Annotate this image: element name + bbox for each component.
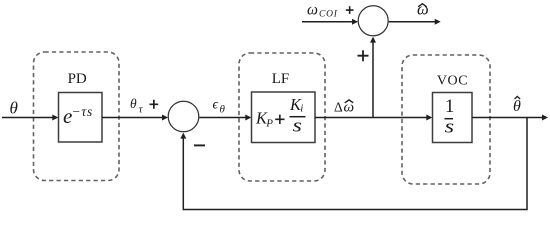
wire sum1 to LF [199, 117, 246, 119]
wire feedback down-left-up [183, 118, 527, 210]
svg-text:θ: θ [220, 104, 226, 116]
summing junction sum1 [168, 101, 199, 132]
arrowhead into PD block [52, 115, 58, 121]
arrowhead theta hat output [542, 115, 548, 121]
block LF Kp + Ki/s [252, 92, 316, 143]
svg-text:i: i [300, 103, 303, 115]
dashed box LF [239, 53, 325, 181]
svg-text:Δ: Δ [334, 99, 343, 114]
arrowhead omega hat output [435, 19, 441, 25]
wire VOC to output theta hat [472, 117, 542, 119]
wire PD to sum1 [102, 117, 163, 119]
wire omega_COI input [302, 21, 353, 23]
dashed box PD [34, 52, 120, 181]
wire sum2 output omega hat [389, 21, 435, 23]
arrowhead into sum1 [162, 115, 168, 121]
svg-text:LF: LF [272, 71, 290, 87]
svg-text:ω: ω [417, 0, 429, 19]
svg-text:θ: θ [130, 96, 137, 111]
svg-text:θ: θ [513, 98, 521, 115]
arrowhead feedback into sum1 bottom [180, 133, 186, 139]
svg-text:P: P [265, 118, 273, 130]
arrowhead into sum2 left [352, 19, 358, 25]
svg-text:VOC: VOC [437, 74, 468, 89]
arrowhead into LF block [245, 115, 251, 121]
svg-text:s: s [445, 117, 455, 138]
svg-text:−τs: −τs [72, 104, 94, 119]
dashed box VOC [402, 55, 490, 184]
svg-text:1: 1 [445, 96, 455, 117]
plus sign at sum1 input [150, 100, 159, 109]
wire input theta [2, 117, 53, 119]
block VOC 1/s [433, 93, 473, 143]
arrowhead into VOC block [426, 115, 432, 121]
plus sign vertical input [358, 50, 369, 61]
arrowhead into sum2 bottom [370, 37, 376, 43]
svg-text:COI: COI [319, 10, 338, 20]
svg-text:s: s [293, 116, 302, 137]
svg-text:θ: θ [10, 99, 18, 118]
wire node up to sum2 [372, 42, 374, 118]
svg-text:ω: ω [307, 2, 318, 19]
svg-text:ϵ: ϵ [213, 97, 219, 112]
wire LF to VOC [315, 117, 427, 119]
svg-text:PD: PD [68, 71, 87, 87]
minus sign feedback [194, 144, 205, 146]
plus sign omega_COI [346, 6, 354, 14]
summing junction sum2 [358, 6, 388, 36]
block PD e^-tau s [59, 93, 103, 143]
